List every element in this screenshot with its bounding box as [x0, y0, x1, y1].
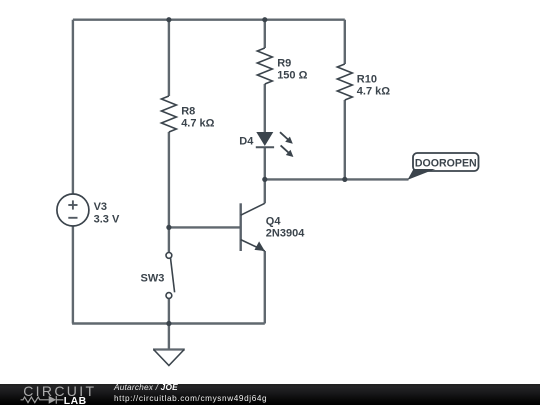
svg-text:V3: V3	[94, 201, 107, 213]
node dot output left	[262, 177, 267, 182]
wire LED to output node	[264, 147, 266, 179]
svg-text:4.7 kΩ: 4.7 kΩ	[181, 118, 214, 130]
label V3 value	[94, 201, 120, 225]
svg-text:SW3: SW3	[141, 272, 165, 284]
switch SW3	[166, 253, 175, 299]
node dot top R8	[166, 17, 171, 22]
resistor R8	[161, 96, 176, 132]
wire R10 branch top	[344, 20, 346, 64]
wire base	[169, 226, 241, 228]
LED D4	[256, 132, 294, 157]
resistor R10	[337, 64, 352, 100]
wire emitter vertical	[264, 251, 266, 324]
flag DOOROPEN	[408, 153, 479, 180]
wire left vertical upper	[72, 20, 74, 194]
wire R9 branch top	[264, 20, 266, 48]
label Q4 value	[266, 215, 305, 239]
svg-text:LAB: LAB	[64, 396, 87, 405]
svg-text:2N3904: 2N3904	[266, 227, 305, 239]
svg-text:150 Ω: 150 Ω	[277, 70, 307, 82]
svg-text:R8: R8	[181, 106, 195, 118]
svg-text:R9: R9	[277, 58, 291, 70]
node dot output R10	[342, 177, 347, 182]
footer bar	[0, 384, 540, 405]
label R8 value	[181, 106, 214, 130]
wire R8 to switch	[168, 132, 170, 253]
wire output horizontal	[265, 178, 409, 180]
wire R10 bottom	[344, 100, 346, 179]
resistor R9	[257, 48, 272, 84]
wire bottom rail	[72, 322, 265, 324]
svg-text:4.7 kΩ: 4.7 kΩ	[357, 86, 390, 98]
voltage source V3	[57, 194, 89, 226]
wire R9 to LED	[264, 84, 266, 132]
node dot top R9	[262, 17, 267, 22]
svg-text:D4: D4	[239, 136, 254, 148]
svg-text:3.3 V: 3.3 V	[94, 213, 120, 225]
label R10 value	[357, 74, 390, 98]
emitter arrowhead	[255, 241, 265, 251]
label R9 value	[277, 58, 307, 82]
node dot base tee	[166, 225, 171, 230]
ground	[153, 324, 185, 366]
wire collector	[264, 179, 266, 203]
node dot bottom rail	[166, 321, 171, 326]
wire left vertical lower	[72, 226, 74, 324]
footer credit text	[114, 384, 178, 391]
wire switch to bottom rail	[168, 298, 170, 323]
svg-text:R10: R10	[357, 74, 377, 86]
svg-text:Q4: Q4	[266, 215, 282, 227]
wire R8 branch top	[168, 20, 170, 96]
CircuitLab logo	[0, 384, 110, 405]
svg-text:DOOROPEN: DOOROPEN	[415, 157, 477, 169]
wire top rail	[73, 19, 345, 21]
transistor Q4	[241, 203, 265, 251]
